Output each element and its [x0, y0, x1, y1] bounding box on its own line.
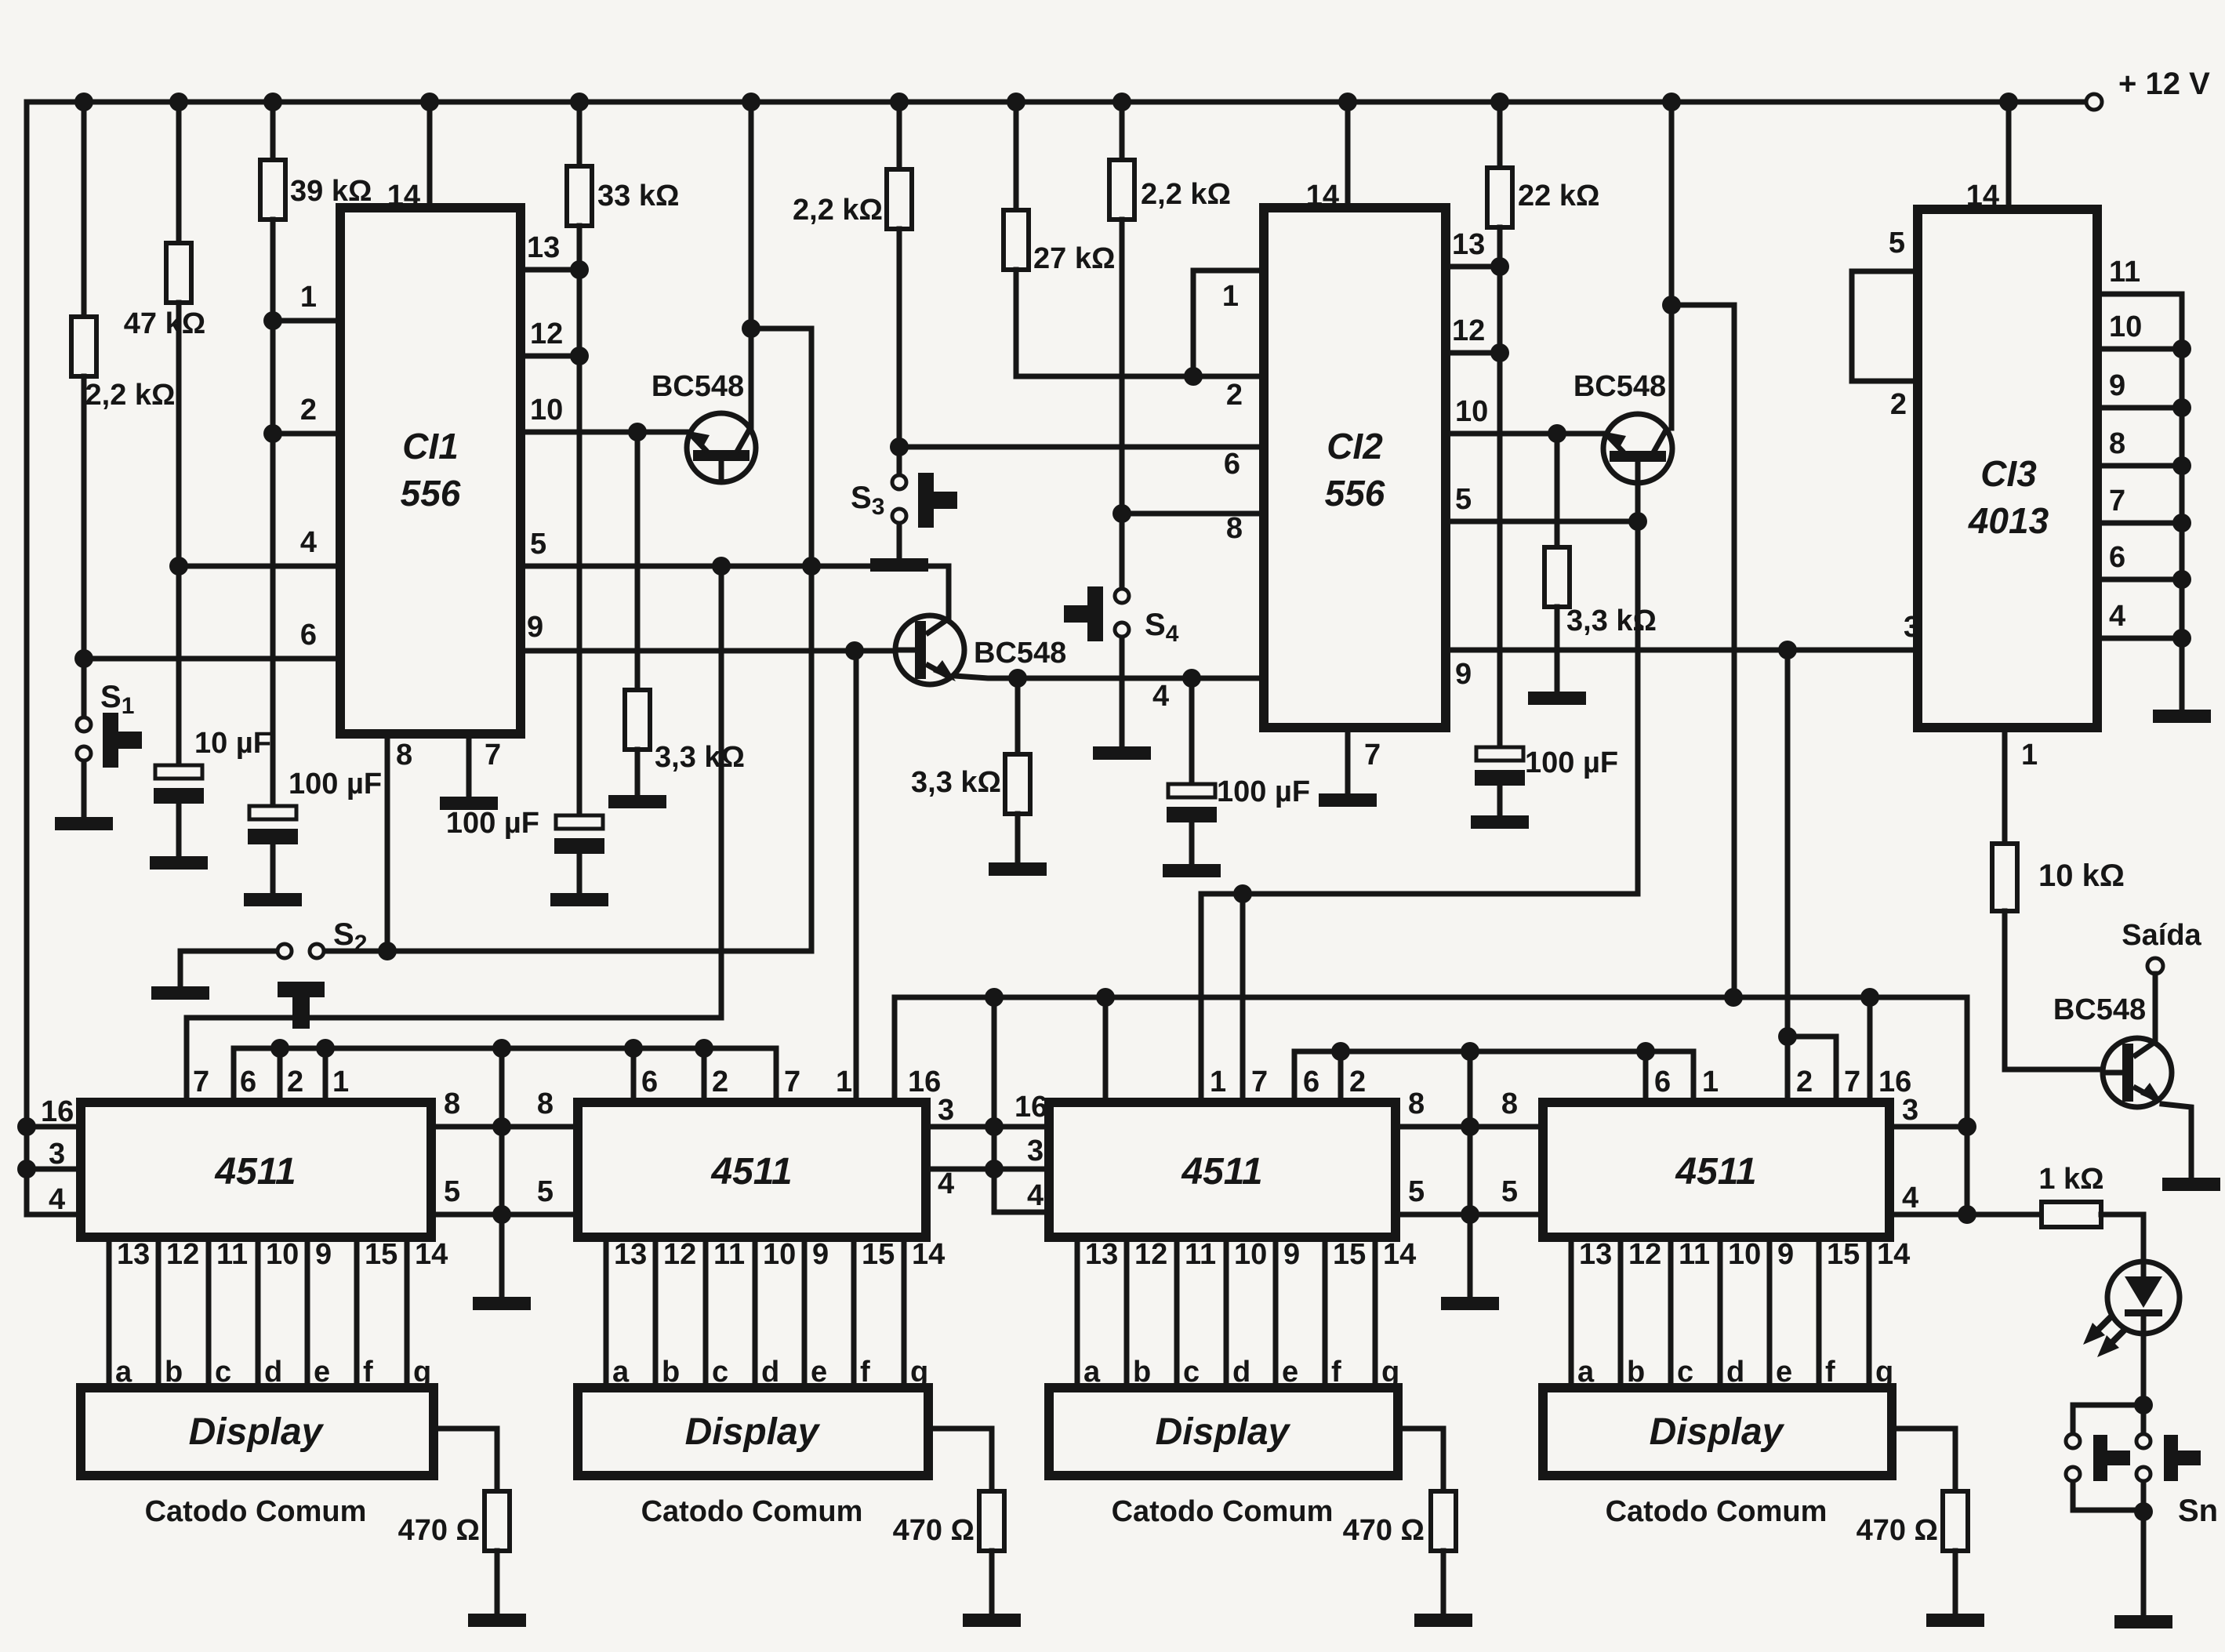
switch S1: [77, 659, 142, 815]
svg-text:Catodo Comum: Catodo Comum: [641, 1495, 863, 1528]
wire CI2 pin 14 from rail: [1345, 102, 1351, 208]
svg-text:2,2 kΩ: 2,2 kΩ: [85, 379, 176, 412]
svg-text:7: 7: [1844, 1066, 1860, 1098]
wire CI2 pin 9 to CI3 pin 3: [1446, 611, 1920, 691]
svg-text:Display: Display: [1650, 1411, 1785, 1453]
ground under R14: [963, 1614, 1021, 1627]
node dot pin 9 to 4511-2 pin1: [845, 641, 864, 660]
ground under R5: [608, 795, 666, 808]
ground under C5: [1471, 815, 1529, 829]
node dot 4511-3 pin 7 tap: [1233, 884, 1252, 903]
svg-text:15: 15: [1333, 1238, 1366, 1271]
svg-text:Display: Display: [189, 1411, 325, 1453]
svg-text:16: 16: [908, 1066, 941, 1098]
node dots gap 1-2: [492, 1117, 511, 1224]
resistor R8 27 kOhm: [1004, 102, 1264, 376]
wire bus B drop to 4511-4 pin 16: [1867, 997, 1873, 1102]
svg-text:CI2: CI2: [1327, 426, 1383, 467]
svg-text:Saída: Saída: [2122, 919, 2201, 952]
svg-text:2: 2: [1890, 388, 1907, 421]
svg-text:4: 4: [938, 1167, 954, 1200]
svg-text:Catodo Comum: Catodo Comum: [1606, 1495, 1828, 1528]
svg-text:14: 14: [387, 180, 420, 212]
latch U4 4511 box 1: [41, 1066, 431, 1237]
resistor R16 470 Ohm: [1857, 1491, 1968, 1612]
display module 4: [1543, 1388, 1892, 1528]
terminal Saida output: [2122, 919, 2201, 974]
ground left of S2: [151, 986, 209, 1000]
node dots gap 2-3: [985, 1117, 1004, 1178]
latch U7 4511 box 4: [1543, 1066, 1918, 1237]
svg-text:8: 8: [1408, 1087, 1425, 1120]
svg-text:470 Ω: 470 Ω: [1343, 1514, 1425, 1547]
svg-text:13: 13: [117, 1238, 150, 1271]
svg-text:4: 4: [2109, 600, 2125, 633]
wire 10k to Q4 base: [2005, 911, 2103, 1069]
display module 1: [81, 1388, 434, 1528]
svg-text:4: 4: [49, 1183, 65, 1216]
wire display 1 output: [434, 1429, 497, 1491]
svg-text:1: 1: [300, 281, 317, 314]
wire Saida to Q4 collector: [2153, 974, 2158, 1043]
svg-text:1: 1: [1702, 1066, 1719, 1098]
svg-text:CI3: CI3: [1980, 453, 2037, 494]
resistor R12 10 kOhm: [1992, 844, 2125, 911]
wire CI3 pin 14 from rail: [2006, 102, 2012, 209]
svg-text:2: 2: [1349, 1066, 1366, 1098]
svg-text:8: 8: [1501, 1087, 1518, 1120]
resistor R11 3,3 kOhm: [1544, 434, 1657, 690]
node dot pin4 junction: [169, 557, 188, 575]
wire 4511-4 pin 4 to 1k resistor: [1889, 1212, 2042, 1218]
node dots on bus C: [1331, 1042, 1655, 1061]
wire ground drop between 4511-3 and 4511-4: [1468, 1051, 1473, 1295]
wire CI2 pin 12 line: [1446, 314, 1500, 353]
wire bus B latch-enable net: [895, 997, 1967, 1214]
svg-text:100 µF: 100 µF: [289, 768, 382, 801]
ground under R6: [989, 862, 1047, 876]
svg-text:7: 7: [193, 1066, 209, 1098]
svg-text:10: 10: [1455, 395, 1488, 428]
resistor R17 1 kOhm: [2038, 1163, 2103, 1227]
ground under S4: [1093, 746, 1151, 760]
node dots left border: [17, 1117, 36, 1178]
svg-text:Catodo Comum: Catodo Comum: [1112, 1495, 1334, 1528]
wire CI2 pin 13 line: [1446, 228, 1500, 267]
wire Q4 emitter to ground: [2162, 1104, 2191, 1176]
svg-text:14: 14: [1383, 1238, 1416, 1271]
wire CI1 pin 1 line: [273, 281, 340, 321]
svg-text:10: 10: [530, 394, 563, 427]
svg-text:Catodo Comum: Catodo Comum: [145, 1495, 367, 1528]
wire CI2 pin 6 line: [899, 447, 1264, 481]
display module 3: [1049, 1388, 1398, 1528]
node dots on bus left: [270, 1039, 713, 1058]
wire 4511-4 pin 3 to bus B corner: [1889, 1124, 1967, 1130]
wire CI1 pin 4 line: [179, 526, 340, 566]
svg-text:8: 8: [2109, 427, 2125, 460]
latch U6 4511 box 3: [1049, 1066, 1396, 1237]
wire 4511-3 pin5 to 4511-4 pin5: [1396, 1175, 1543, 1214]
svg-text:4: 4: [1902, 1182, 1918, 1214]
svg-text:2: 2: [1796, 1066, 1813, 1098]
svg-text:11: 11: [1679, 1238, 1710, 1271]
svg-text:7: 7: [485, 739, 501, 772]
resistor R14 470 Ohm: [893, 1491, 1004, 1612]
svg-text:5: 5: [537, 1175, 554, 1208]
ground under R16: [1926, 1614, 1984, 1627]
terminal +12V: [2086, 67, 2210, 110]
node dot CI1 pin8 on S2 net: [378, 942, 397, 960]
transistor Q1 BC548: [652, 102, 756, 482]
svg-text:+ 12 V: + 12 V: [2118, 67, 2210, 101]
svg-text:16: 16: [1014, 1091, 1047, 1124]
svg-text:3: 3: [1027, 1135, 1044, 1167]
node dots gap 3-4: [1461, 1117, 1479, 1224]
ground CI3 right bus: [2153, 710, 2211, 723]
wire 4511-3 pin8 to 4511-4 pin8: [1396, 1087, 1543, 1127]
resistor R9 2,2 kOhm: [1109, 102, 1231, 587]
svg-text:12: 12: [1134, 1238, 1167, 1271]
node dot Sn top: [2134, 1396, 2153, 1414]
wire S2 net horizontal: [325, 949, 811, 954]
transistor Q4 BC548: [2053, 993, 2172, 1107]
wire Q2 emitter line to CI2 pin 4: [955, 676, 1264, 713]
capacitor C5 100 uF: [1475, 746, 1618, 814]
svg-text:6: 6: [240, 1066, 256, 1098]
svg-text:470 Ω: 470 Ω: [1857, 1514, 1938, 1547]
wire net line from CI2 pin5 to 4511-3 pins 1,7: [1201, 894, 1638, 1102]
node dot 3,3k tap right: [1548, 424, 1566, 443]
svg-text:1: 1: [1222, 280, 1239, 313]
wire CI1 pin 9 line to Q2 base: [521, 611, 896, 651]
wire link to 4511-4 pin 7: [1778, 1027, 1836, 1102]
wire 4511-3 segment pins 13,12,11,10,9,15,14 to display: [1077, 1237, 1416, 1389]
svg-text:4511: 4511: [1675, 1151, 1756, 1193]
svg-text:470 Ω: 470 Ω: [398, 1514, 480, 1547]
node dots CI1 pins 1,2: [263, 311, 282, 443]
wire CI1 pin 12 line: [521, 318, 579, 356]
svg-text:33 kΩ: 33 kΩ: [597, 180, 679, 212]
svg-text:4511: 4511: [710, 1151, 792, 1193]
node dot pin6 junction: [74, 649, 93, 668]
wire CI2 pin 10 line to Q3 base: [1446, 395, 1603, 434]
svg-text:BC548: BC548: [1573, 370, 1666, 403]
wire CI1 pin 6 line: [84, 619, 340, 659]
svg-text:14: 14: [1877, 1238, 1910, 1271]
svg-text:100 µF: 100 µF: [446, 807, 539, 840]
svg-text:3,3 kΩ: 3,3 kΩ: [655, 741, 745, 774]
svg-text:10 µF: 10 µF: [194, 727, 271, 760]
svg-text:100 µF: 100 µF: [1525, 746, 1618, 779]
svg-text:4: 4: [1027, 1179, 1044, 1212]
wire CI1 pin 10 line to Q1 base: [521, 394, 687, 432]
ground under R15: [1414, 1614, 1472, 1627]
svg-text:1 kΩ: 1 kΩ: [2038, 1163, 2103, 1196]
svg-text:7: 7: [1364, 739, 1381, 772]
wire CI2 pin 5 line to Q3 base stem: [1446, 462, 1638, 894]
svg-text:5: 5: [1455, 483, 1472, 516]
svg-text:556: 556: [401, 473, 461, 514]
svg-text:4511: 4511: [214, 1151, 296, 1193]
wire ground drop between 4511-1 and 4511-2: [499, 1048, 505, 1295]
svg-text:12: 12: [663, 1238, 696, 1271]
ground under S3: [870, 558, 928, 572]
wire LED to Sn switch: [2141, 1334, 2147, 1435]
svg-text:CI1: CI1: [402, 426, 459, 467]
wire CI1 pin 8 down to S2 net: [387, 734, 412, 951]
wire display 2 output: [928, 1429, 992, 1491]
svg-text:10: 10: [1728, 1238, 1761, 1271]
wire CI1 pin 13 line: [521, 231, 579, 270]
svg-text:7: 7: [2109, 485, 2125, 517]
svg-text:11: 11: [1185, 1238, 1216, 1271]
svg-text:Display: Display: [1156, 1411, 1291, 1453]
ground under C4: [1163, 864, 1221, 877]
svg-text:9: 9: [315, 1238, 332, 1271]
svg-text:5: 5: [444, 1175, 460, 1208]
svg-text:14: 14: [415, 1238, 448, 1271]
svg-text:9: 9: [1283, 1238, 1300, 1271]
node dots CI1 pins 13,12: [570, 260, 589, 365]
node dot CI2 pin 8 junction: [1112, 504, 1131, 523]
svg-text:14: 14: [912, 1238, 945, 1271]
svg-text:12: 12: [166, 1238, 199, 1271]
wire CI2 pin 8 line: [1122, 512, 1264, 545]
ground under R11: [1528, 692, 1586, 705]
svg-text:8: 8: [444, 1087, 460, 1120]
resistor R3 39 kOhm: [260, 102, 372, 806]
display module 2: [578, 1388, 928, 1528]
wire 4511-2 pin3 to 4511-3 pin16: [926, 1091, 1049, 1127]
svg-text:5: 5: [1408, 1175, 1425, 1208]
svg-text:8: 8: [1226, 512, 1243, 545]
svg-text:10: 10: [2109, 310, 2142, 343]
wire CI1 pin 14 from rail: [427, 102, 433, 208]
svg-text:1: 1: [332, 1066, 349, 1098]
wire 4511-2 segment pins 13,12,11,10,9,15,14 to display: [606, 1237, 945, 1389]
switch S3: [851, 473, 957, 557]
wire bus left 4511-1 pins 6,2,1 to 4511-2 pins 6,2,7: [234, 1048, 776, 1102]
svg-text:6: 6: [1654, 1066, 1671, 1098]
wire 4511-2 pin 1 up to CI1 pin 9 net: [854, 651, 859, 1102]
capacitor C3 100 uF: [446, 807, 604, 891]
svg-text:9: 9: [1455, 658, 1472, 691]
latch U5 4511 box 2: [578, 1066, 941, 1237]
wire bus C 4511-3 pins 6,2 to 4511-4 pins 6,1: [1294, 1051, 1693, 1102]
wire bus B drop to 4511-3 top: [1103, 997, 1109, 1102]
svg-text:2: 2: [1226, 379, 1243, 412]
wire 4511-2 pin4 to 4511-3 pin3: [926, 1135, 1049, 1200]
svg-text:11: 11: [216, 1238, 248, 1271]
LED D1: [2083, 1262, 2180, 1357]
svg-text:3,3 kΩ: 3,3 kΩ: [1566, 605, 1657, 637]
svg-text:9: 9: [812, 1238, 829, 1271]
node dot Sn bottom: [2134, 1502, 2153, 1521]
resistor R15 470 Ohm: [1343, 1491, 1456, 1612]
capacitor C2 100 uF: [248, 768, 382, 891]
node dot CI3 pin 3 branch: [1778, 641, 1797, 659]
svg-text:15: 15: [1827, 1238, 1860, 1271]
wire CI2 pin 1 stub: [1193, 270, 1264, 376]
wire display 4 output: [1892, 1429, 1955, 1491]
svg-text:13: 13: [614, 1238, 647, 1271]
wire S2 left to ground: [180, 951, 276, 985]
svg-text:27 kΩ: 27 kΩ: [1033, 242, 1115, 275]
wire CI1 pin 7 to ground: [469, 734, 501, 795]
svg-text:8: 8: [537, 1087, 554, 1120]
wire +12V power rail: [27, 100, 2085, 105]
svg-text:100 µF: 100 µF: [1217, 775, 1310, 808]
ground between 4511-1 and 4511-2: [473, 1297, 531, 1310]
svg-text:10: 10: [266, 1238, 299, 1271]
node dots CI3 right bus: [2172, 339, 2191, 648]
svg-text:6: 6: [2109, 541, 2125, 574]
wire 4511-1 pin8 to 4511-2 pin8: [431, 1087, 578, 1127]
capacitor C1 10 uF: [154, 727, 271, 855]
svg-text:10: 10: [1234, 1238, 1267, 1271]
node dot CI2 pin 6 junction: [890, 438, 909, 456]
svg-text:15: 15: [862, 1238, 895, 1271]
resistor R13 470 Ohm: [398, 1491, 510, 1612]
svg-text:4: 4: [1152, 680, 1169, 713]
op-amp U2 CI2 556 box: [1264, 180, 1446, 728]
resistor R5 3,3 kOhm: [625, 432, 745, 793]
ground under Sn: [2114, 1615, 2172, 1628]
svg-text:2: 2: [287, 1066, 303, 1098]
wire 4511-4 segment pins 13,12,11,10,9,15,14 to display: [1571, 1237, 1910, 1389]
svg-text:11: 11: [2109, 256, 2140, 289]
node dots on pin 4 line: [1008, 669, 1201, 688]
resistor R6 3,3 kOhm: [911, 678, 1030, 861]
wire gap drop from bus B with 4511-3 pin4 stub: [994, 997, 1049, 1212]
svg-text:6: 6: [1303, 1066, 1319, 1098]
svg-text:5: 5: [1889, 227, 1905, 260]
svg-text:13: 13: [527, 231, 560, 264]
wire CI1 pin 5 line: [521, 528, 949, 619]
node dots on bus B: [985, 988, 1879, 1007]
svg-text:BC548: BC548: [652, 370, 744, 403]
wire CI2 pin 2 label: [1226, 379, 1243, 412]
ground under C3: [550, 893, 608, 906]
svg-text:4: 4: [300, 526, 317, 559]
svg-text:47 kΩ: 47 kΩ: [124, 307, 205, 340]
svg-text:11: 11: [713, 1238, 745, 1271]
svg-text:7: 7: [784, 1066, 800, 1098]
ground under C1: [150, 856, 208, 870]
svg-text:12: 12: [1452, 314, 1485, 347]
node dot pin 5 junction: [1628, 512, 1647, 531]
switch S4: [1064, 586, 1179, 745]
svg-text:39 kΩ: 39 kΩ: [290, 175, 372, 208]
svg-text:Sn: Sn: [2178, 1494, 2218, 1528]
ground under CI1 pin 7: [440, 797, 498, 810]
svg-text:14: 14: [1966, 180, 1999, 212]
svg-text:4013: 4013: [1968, 500, 2049, 541]
svg-text:BC548: BC548: [974, 637, 1066, 670]
svg-text:9: 9: [527, 611, 543, 644]
svg-text:9: 9: [2109, 369, 2125, 402]
ground under R13: [468, 1614, 526, 1627]
capacitor C4 100 uF: [1167, 678, 1310, 862]
svg-text:556: 556: [1325, 473, 1385, 514]
svg-text:9: 9: [1777, 1238, 1794, 1271]
svg-text:6: 6: [300, 619, 317, 652]
node dots CI2 pins 13,12: [1490, 257, 1509, 362]
svg-text:1: 1: [836, 1066, 852, 1098]
svg-text:8: 8: [396, 739, 412, 772]
svg-text:12: 12: [1628, 1238, 1661, 1271]
svg-text:15: 15: [365, 1238, 397, 1271]
svg-text:13: 13: [1579, 1238, 1612, 1271]
resistor R4 33 kOhm: [567, 102, 679, 815]
svg-text:22 kΩ: 22 kΩ: [1518, 180, 1599, 212]
svg-text:3,3 kΩ: 3,3 kΩ: [911, 766, 1001, 799]
junction dots on +12V rail: [74, 93, 2018, 111]
transistor Q3 BC548: [1573, 102, 1672, 483]
ground under S1: [55, 817, 113, 830]
svg-text:7: 7: [1251, 1066, 1268, 1098]
svg-text:Display: Display: [685, 1411, 821, 1453]
op-amp U1 CI1 556 box: [340, 180, 521, 734]
ground under CI2 pin 7: [1319, 793, 1377, 807]
wire CI3 pin3 vertical to 4511-4 pin 2: [1785, 650, 1791, 1102]
switch Sn: [2066, 1405, 2218, 1528]
node dots on pin 5 line: [712, 557, 821, 575]
wire CI2 pin 7 to ground: [1348, 728, 1381, 792]
node dots 4511-4 right: [1958, 1117, 1976, 1224]
svg-text:5: 5: [530, 528, 546, 561]
svg-text:2: 2: [712, 1066, 728, 1098]
svg-text:10: 10: [763, 1238, 796, 1271]
wire Q1 base stem down and over to 4511-1 pin 7: [187, 566, 721, 1102]
svg-text:12: 12: [530, 318, 563, 350]
ground between 4511-3 and 4511-4: [1441, 1297, 1499, 1310]
resistor R7 2,2 kOhm: [793, 102, 912, 474]
wire CI3 pin 1 to 10k: [2005, 728, 2038, 844]
svg-text:3: 3: [938, 1094, 954, 1127]
wire display 3 output: [1398, 1429, 1443, 1491]
resistor R2 47 kOhm: [124, 102, 205, 765]
wire collector branch to bus B: [1671, 305, 1734, 997]
svg-text:1: 1: [2021, 739, 2038, 772]
wire Q1 collector branch to S2 net: [742, 319, 811, 951]
wire 1k to LED: [2101, 1214, 2143, 1262]
wire CI3 right side pins 11,10,9,8,7,6,4 to bus: [2097, 256, 2182, 708]
wire CI1 pin 2 line: [273, 394, 340, 434]
svg-text:2,2 kΩ: 2,2 kΩ: [1141, 178, 1231, 211]
svg-text:4511: 4511: [1181, 1151, 1262, 1193]
svg-text:2: 2: [300, 394, 317, 427]
wire Sn to ground: [2141, 1482, 2147, 1614]
wire 4511-1 segment pins 13,12,11,10,9,15,14 to display: [109, 1237, 448, 1389]
resistor R10 22 kOhm: [1487, 102, 1599, 747]
svg-text:5: 5: [1501, 1175, 1518, 1208]
svg-text:3: 3: [49, 1138, 65, 1171]
svg-text:13: 13: [1085, 1238, 1118, 1271]
flip-flop U3 CI3 4013 box: [1918, 180, 2097, 728]
svg-text:BC548: BC548: [2053, 993, 2146, 1026]
ground under C2: [244, 893, 302, 906]
resistor R1 2,2 kOhm: [71, 102, 175, 659]
transistor Q2 BC548: [895, 615, 1066, 684]
wire left border to 4511-1 pins 16/3/4: [27, 102, 81, 1214]
svg-text:6: 6: [1224, 448, 1240, 481]
node dot Q3 collector branch: [1662, 296, 1681, 314]
wire CI3 pins 5-2 loop: [1852, 227, 1918, 421]
svg-text:2,2 kΩ: 2,2 kΩ: [793, 194, 883, 227]
wire 4511-1 pin5 to 4511-2 pin5: [431, 1175, 578, 1214]
